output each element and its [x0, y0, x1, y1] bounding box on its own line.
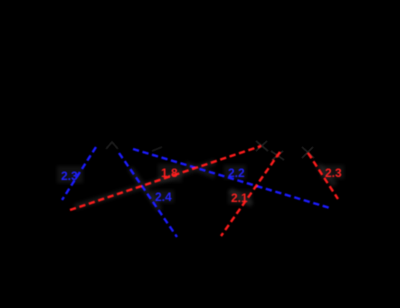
- svg-text:2.3: 2.3: [61, 169, 78, 183]
- gray vertex D: [271, 151, 284, 160]
- gray vertex B: [152, 147, 162, 151]
- svg-text:2.2: 2.2: [228, 166, 245, 180]
- svg-text:1.8: 1.8: [161, 166, 178, 180]
- gray vertex E: [302, 147, 314, 158]
- hydrogen bond B2 (blue): [119, 153, 177, 237]
- hydrogen bond R3 (red): [308, 153, 338, 199]
- svg-text:2.1: 2.1: [231, 191, 248, 205]
- gray vertex C: [256, 141, 268, 151]
- jpeg halo artifacts: [57, 164, 344, 204]
- hydrogen bond B1 (blue): [62, 147, 96, 200]
- svg-text:2.3: 2.3: [325, 166, 342, 180]
- svg-text:2.4: 2.4: [155, 190, 172, 204]
- gray vertex A: [106, 142, 118, 149]
- hydrogen bond R1 (red): [70, 146, 261, 210]
- hydrogen bond R2 (red): [221, 152, 280, 236]
- hydrogen bond B3 (blue): [133, 149, 330, 208]
